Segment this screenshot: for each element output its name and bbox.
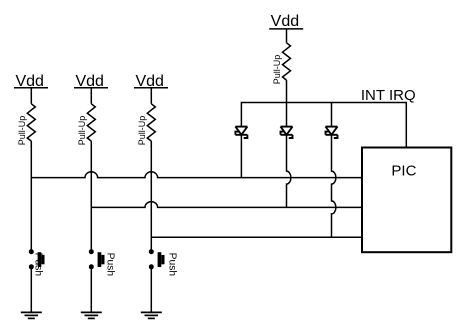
diode D3 schottky hook left xyxy=(326,132,330,135)
svg-text:Push: Push xyxy=(32,253,43,277)
wire R1 to SW1 xyxy=(30,141,32,252)
diode D3 schottky hook right xyxy=(334,135,338,138)
wire line3 SW3/R3 to PIC xyxy=(151,236,362,238)
svg-text:Push: Push xyxy=(167,253,178,277)
wire Vdd2 to R2 top xyxy=(90,88,92,104)
pushbutton SW2 xyxy=(89,249,105,269)
diode D2 cathode bar xyxy=(281,134,293,136)
resistor R4 xyxy=(283,43,291,80)
wire D2 cathode to line2 with hop over line1 xyxy=(287,135,291,208)
resistor R2 xyxy=(87,104,95,141)
diode D1 cathode bar xyxy=(235,134,247,136)
diode D2 triangle xyxy=(281,127,293,135)
svg-text:Pull-Up: Pull-Up xyxy=(17,116,27,146)
svg-text:Pull-Up: Pull-Up xyxy=(137,116,147,146)
wire Vdd1 to R1 top xyxy=(30,88,32,104)
IC U1 PIC box xyxy=(362,148,451,253)
svg-text:INT IRQ: INT IRQ xyxy=(361,87,416,104)
svg-text:Pull-Up: Pull-Up xyxy=(272,55,282,85)
svg-text:Push: Push xyxy=(105,253,116,277)
power Vdd3 bar xyxy=(134,87,168,89)
diode D3 cathode bar xyxy=(326,134,338,136)
ground GND1 xyxy=(21,312,42,318)
pushbutton SW3 xyxy=(149,249,165,269)
ground GND3 xyxy=(141,312,162,318)
ground GND2 xyxy=(81,312,102,318)
diode D1 schottky hook left xyxy=(235,132,239,135)
svg-text:Vdd: Vdd xyxy=(271,13,299,30)
pushbutton SW1 xyxy=(29,249,45,269)
wire R3 to SW3 xyxy=(150,141,152,252)
power Vdd4 bar xyxy=(269,28,303,30)
diode D2 schottky hook right xyxy=(289,135,293,138)
wire Vdd3 to R3 top xyxy=(150,88,152,104)
wire line2 SW2/R2 to PIC with hop xyxy=(91,202,362,208)
wire D1 cathode to line1 xyxy=(240,135,242,178)
resistor R3 xyxy=(147,104,155,141)
wire GND2 stem xyxy=(90,267,92,313)
diode D1 schottky hook right xyxy=(244,135,248,138)
wire R2 to SW2 xyxy=(90,141,92,252)
svg-text:PIC: PIC xyxy=(391,162,416,179)
power Vdd2 bar xyxy=(74,87,108,89)
wire R4 to INT bus xyxy=(286,80,288,102)
diode D1 triangle xyxy=(235,127,247,135)
wire line1 SW1/R1 to PIC with hops xyxy=(31,172,362,178)
diode D2 anode bar xyxy=(281,126,293,128)
diode D1 anode bar xyxy=(235,126,247,128)
wire INT IRQ bus xyxy=(241,103,406,148)
wire Vdd4 to R4 top xyxy=(286,29,288,43)
wire bus to D2 anode xyxy=(286,103,288,127)
svg-text:Pull-Up: Pull-Up xyxy=(77,116,87,146)
wire GND1 stem xyxy=(30,267,32,313)
wire D3 cathode to line3 with hops over line1 and line2 xyxy=(332,135,336,238)
diode D3 triangle xyxy=(326,127,338,135)
wire GND3 stem xyxy=(150,267,152,313)
resistor R1 xyxy=(27,104,35,141)
diode D2 schottky hook left xyxy=(281,132,285,135)
power Vdd1 bar xyxy=(14,87,48,89)
diode D3 anode bar xyxy=(326,126,338,128)
wire bus to D3 anode xyxy=(331,103,333,127)
